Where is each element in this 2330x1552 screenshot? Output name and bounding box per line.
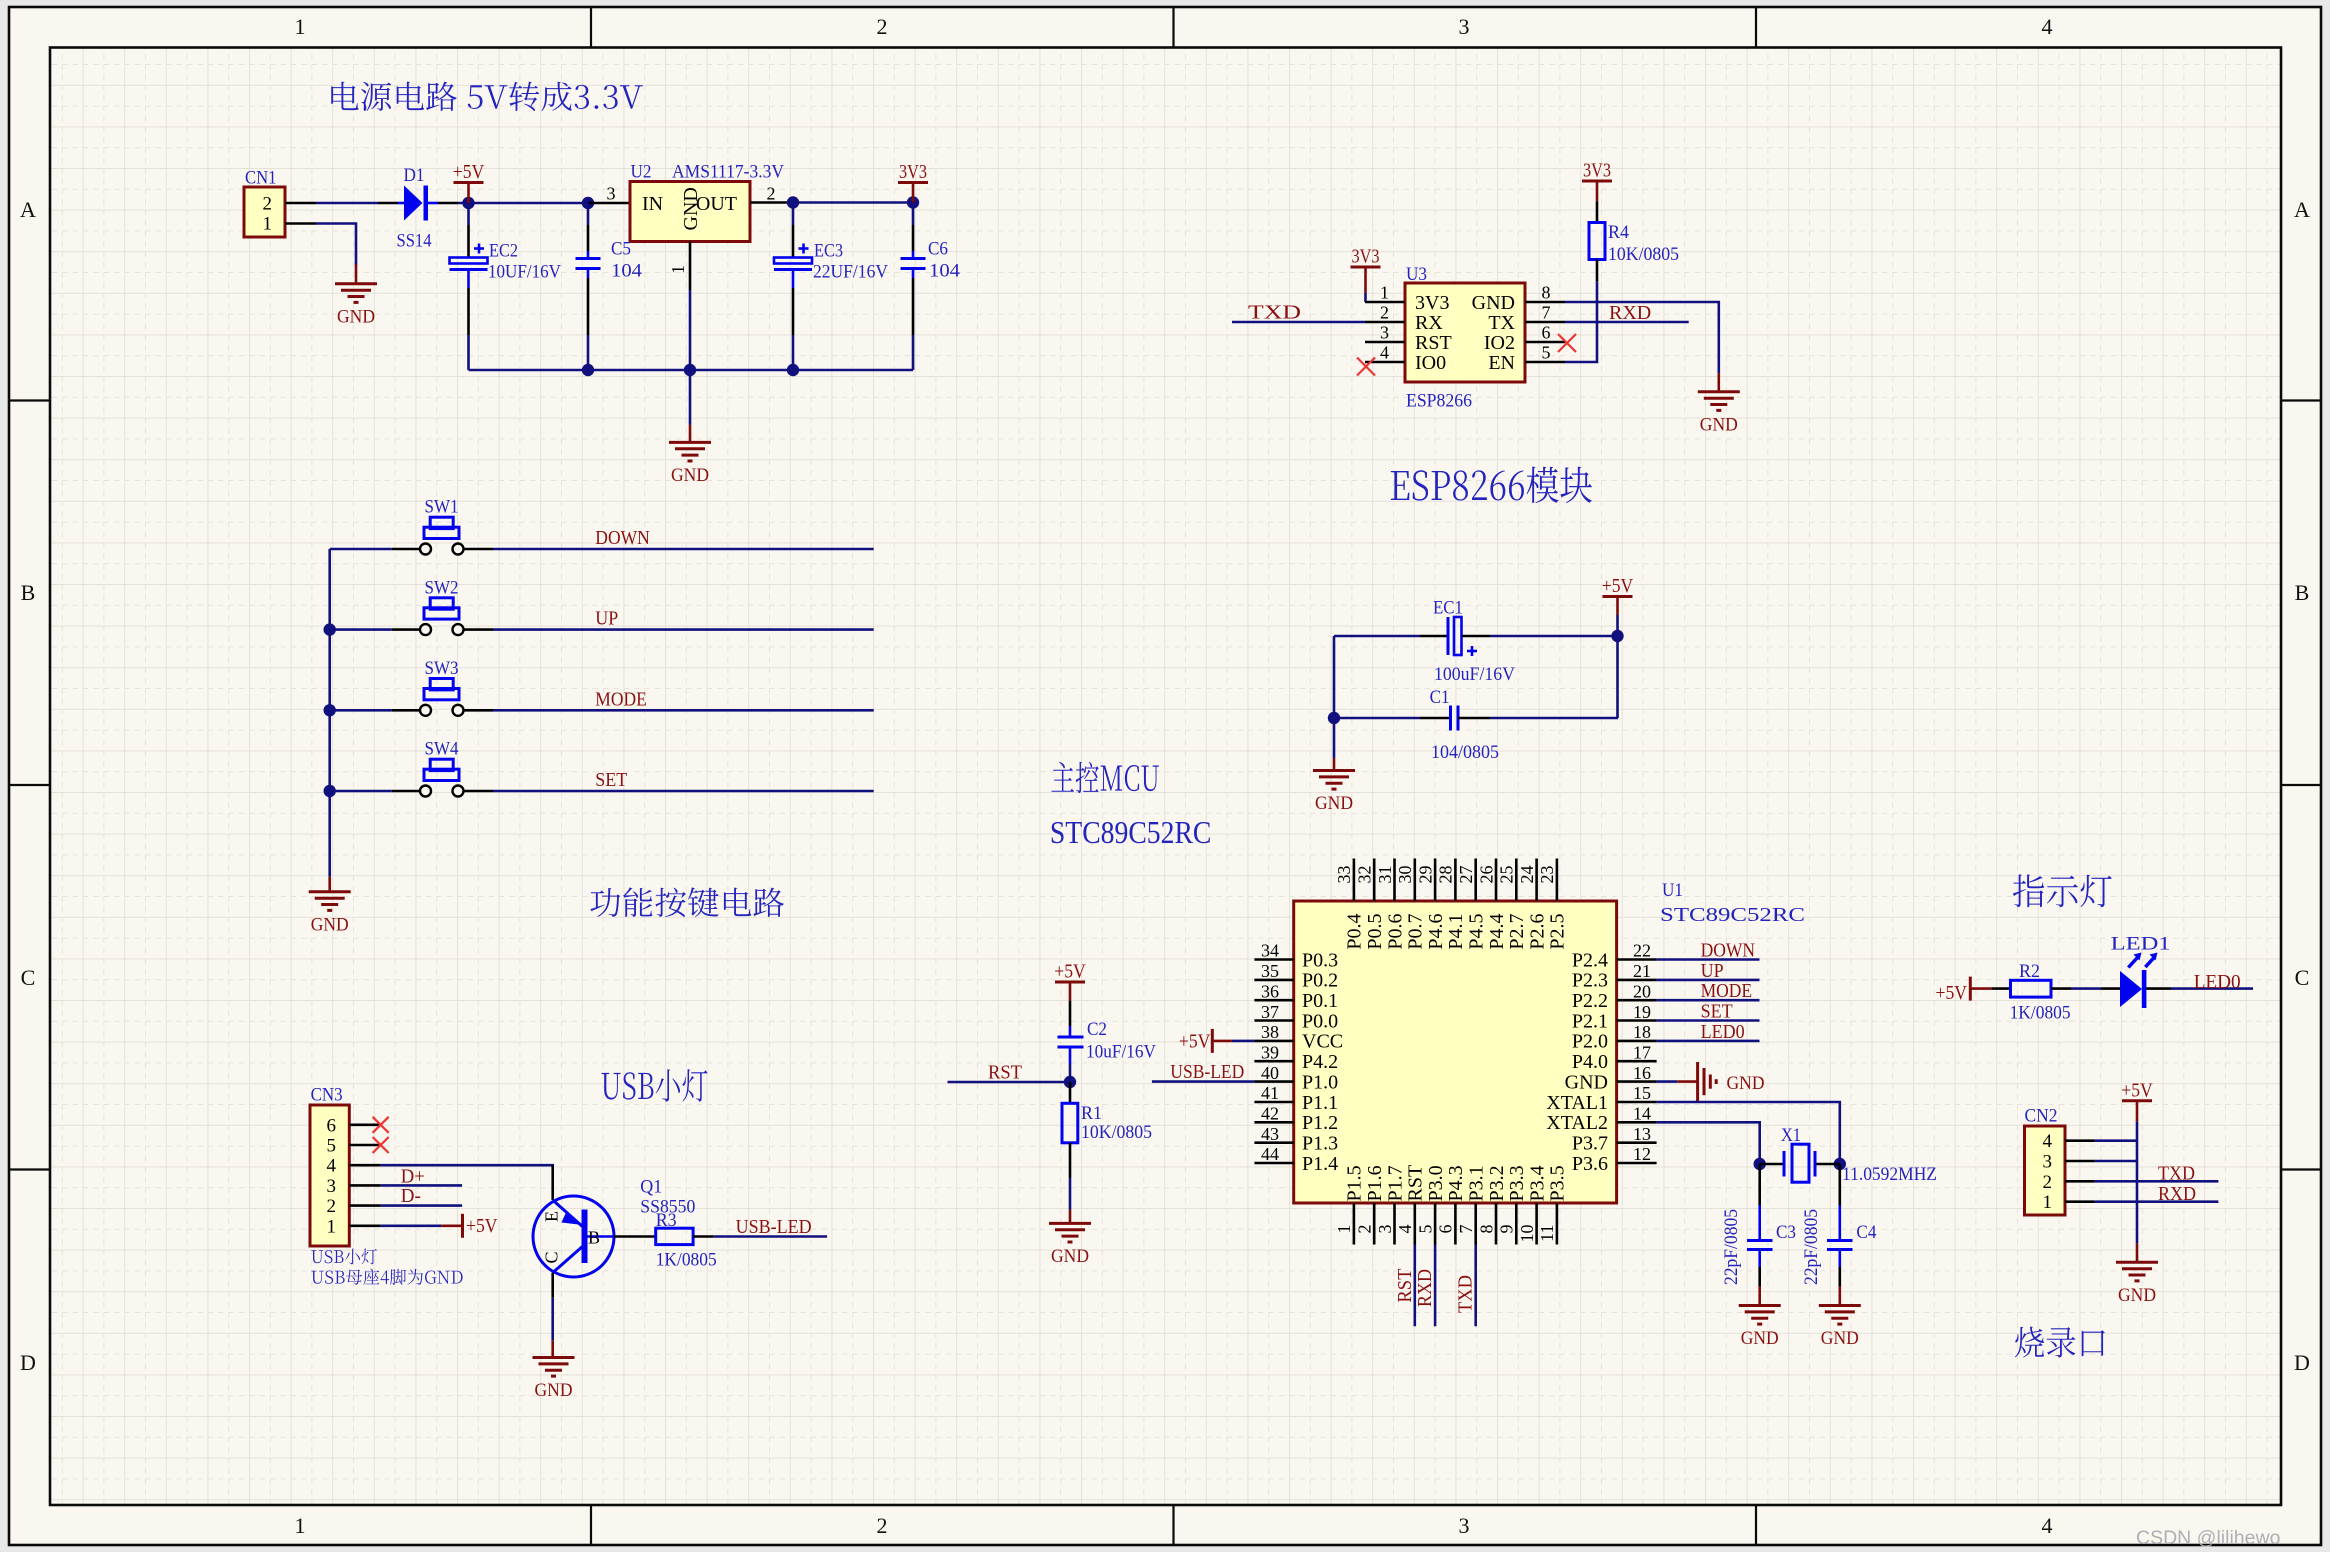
svg-text:1K/0805: 1K/0805: [2010, 1003, 2071, 1024]
svg-text:RX: RX: [1415, 312, 1443, 334]
svg-text:P0.4: P0.4: [1344, 914, 1366, 950]
wire / net DOWN: [493, 548, 874, 551]
svg-text:EC1: EC1: [1433, 598, 1463, 619]
ground (switches): [328, 877, 331, 892]
svg-text:SET: SET: [1701, 1001, 1733, 1023]
svg-text:10: 10: [1517, 1225, 1537, 1243]
ground (pin16, sideways): [1657, 1080, 1678, 1083]
wire R2 to LED1: [2071, 987, 2101, 990]
U1 pin 13 P3.7: [1617, 1141, 1657, 1144]
title: power circuit 电源电路 5V转成3.3V: [331, 82, 643, 112]
wire right leg: [1616, 636, 1619, 718]
junction at +5V node: [462, 197, 474, 209]
CN3 pin 5: [349, 1144, 380, 1147]
wire EC1 left leg: [1333, 636, 1336, 718]
svg-text:P1.6: P1.6: [1364, 1165, 1386, 1201]
svg-text:SW3: SW3: [425, 658, 459, 679]
svg-text:8: 8: [1476, 1225, 1496, 1234]
wire / net UP: [493, 628, 874, 631]
svg-text:D-: D-: [401, 1185, 421, 1207]
power 3V3 (U3): [1351, 266, 1381, 269]
svg-text:1: 1: [295, 1513, 306, 1538]
svg-text:CN1: CN1: [245, 168, 277, 189]
svg-text:AMS1117-3.3V: AMS1117-3.3V: [672, 162, 784, 183]
svg-text:5: 5: [1415, 1225, 1435, 1234]
svg-text:P1.2: P1.2: [1302, 1112, 1338, 1134]
title 指示灯: [2013, 874, 2112, 907]
svg-text:RST: RST: [1394, 1269, 1416, 1303]
CN2 pin 1: [2065, 1200, 2095, 1203]
svg-text:TXD: TXD: [1455, 1275, 1477, 1313]
U1 pin 39 P4.2: [1254, 1060, 1293, 1063]
svg-text:C2: C2: [1087, 1019, 1107, 1040]
svg-text:2: 2: [263, 194, 273, 215]
U1 pin 44 P1.4: [1254, 1162, 1293, 1165]
svg-text:P2.6: P2.6: [1526, 914, 1548, 950]
svg-text:23: 23: [1537, 866, 1557, 884]
U1 pin 42 P1.2: [1254, 1121, 1293, 1124]
svg-text:+5V: +5V: [2121, 1079, 2153, 1101]
U1 pin 20 P2.2: [1617, 999, 1657, 1002]
svg-text:C6: C6: [928, 239, 948, 260]
ground (Q1): [551, 1340, 554, 1357]
svg-text:3: 3: [1459, 1513, 1470, 1538]
svg-text:3: 3: [327, 1176, 337, 1197]
svg-text:P1.7: P1.7: [1384, 1165, 1406, 1201]
U1 pin 24 P2.6: [1535, 859, 1538, 902]
CN3 pin 2: [349, 1204, 380, 1207]
U1 pin 15 XTAL1: [1617, 1101, 1657, 1104]
svg-text:104/0805: 104/0805: [1431, 742, 1499, 763]
svg-text:+5V: +5V: [1936, 982, 1968, 1004]
svg-text:GND: GND: [1700, 414, 1738, 435]
crystal X1 11.0592MHZ: [1760, 1163, 1784, 1166]
svg-text:7: 7: [1542, 303, 1551, 323]
svg-text:MODE: MODE: [595, 688, 647, 710]
svg-text:P4.3: P4.3: [1445, 1165, 1467, 1201]
svg-text:14: 14: [1633, 1104, 1651, 1124]
U3 pin 7 TX: [1525, 321, 1565, 324]
CN1 pin 2: [285, 202, 316, 205]
svg-text:B: B: [2295, 580, 2310, 605]
svg-text:4: 4: [2042, 1513, 2053, 1538]
U1 pin 16 GND: [1617, 1080, 1657, 1083]
net RXD wire (pin5): [1434, 1245, 1437, 1327]
D1 cathode pin: [438, 202, 458, 205]
svg-text:3: 3: [1380, 323, 1389, 343]
svg-text:SET: SET: [595, 769, 627, 791]
net RST wire (pin4): [1414, 1245, 1417, 1327]
U1 pin 26 P4.4: [1495, 859, 1498, 902]
U1 pin 6 P4.3: [1454, 1203, 1457, 1245]
capacitor EC1 100uF/16V: [1334, 635, 1420, 638]
note USB母座4脚为GND: [311, 1269, 462, 1285]
U1 pin 27 P4.5: [1474, 859, 1477, 902]
svg-text:P4.6: P4.6: [1425, 914, 1447, 950]
svg-text:GND: GND: [1741, 1328, 1779, 1349]
svg-text:R2: R2: [2019, 961, 2040, 982]
junction C5 top: [582, 197, 594, 209]
svg-text:P0.0: P0.0: [1302, 1010, 1338, 1032]
U1 pin 8 P3.2: [1495, 1203, 1498, 1245]
svg-text:40: 40: [1261, 1063, 1279, 1083]
wire U2.2 to 3V3: [793, 201, 913, 204]
capacitor C4 22pF/0805: [1839, 1164, 1842, 1205]
svg-text:GND: GND: [1821, 1328, 1859, 1349]
ground (U2): [689, 370, 692, 425]
svg-text:P0.2: P0.2: [1302, 970, 1338, 992]
svg-text:P2.2: P2.2: [1572, 990, 1608, 1012]
svg-text:CSDN @lilihewo: CSDN @lilihewo: [2136, 1527, 2281, 1549]
no-connect X pin6: [373, 1117, 389, 1133]
title USB小灯: [602, 1069, 708, 1102]
svg-text:D: D: [2294, 1350, 2310, 1375]
U1 pin 29 P4.6: [1434, 859, 1437, 902]
switch common bus wire: [328, 549, 331, 877]
svg-text:GND: GND: [337, 306, 375, 327]
svg-text:C: C: [21, 965, 36, 990]
svg-text:22pF/0805: 22pF/0805: [1721, 1209, 1742, 1285]
U1 pin 31 P0.6: [1393, 859, 1396, 902]
svg-text:7: 7: [1456, 1225, 1476, 1234]
svg-text:39: 39: [1261, 1043, 1279, 1063]
U1 pin 17 P4.0: [1617, 1060, 1657, 1063]
U1 pin 28 P4.1: [1454, 859, 1457, 902]
svg-text:X1: X1: [1781, 1125, 1801, 1146]
svg-text:P0.6: P0.6: [1384, 914, 1406, 950]
svg-text:VCC: VCC: [1302, 1031, 1343, 1053]
svg-text:P0.1: P0.1: [1302, 990, 1338, 1012]
power +5V (CN3): [441, 1225, 461, 1228]
svg-text:10K/0805: 10K/0805: [1081, 1122, 1152, 1143]
svg-text:1: 1: [1380, 283, 1389, 303]
svg-text:38: 38: [1261, 1022, 1279, 1042]
power +5V (C2): [1055, 981, 1085, 984]
svg-text:6: 6: [327, 1115, 337, 1136]
svg-text:P4.2: P4.2: [1302, 1051, 1338, 1073]
svg-text:C: C: [2295, 965, 2310, 990]
U1 pin 2 P1.6: [1373, 1203, 1376, 1245]
CN3 pin 4: [349, 1164, 380, 1167]
svg-text:P3.1: P3.1: [1466, 1165, 1488, 1201]
svg-text:GND: GND: [1565, 1071, 1608, 1093]
U1 pin 41 P1.1: [1254, 1101, 1293, 1104]
svg-text:P3.3: P3.3: [1506, 1165, 1528, 1201]
svg-text:+5V: +5V: [466, 1215, 498, 1237]
svg-text:U3: U3: [1406, 264, 1427, 285]
svg-text:MODE: MODE: [1701, 980, 1753, 1002]
svg-text:4: 4: [2042, 14, 2053, 39]
U1 pin 37 P0.0: [1254, 1019, 1293, 1022]
U1 pin 30 P0.7: [1414, 859, 1417, 902]
svg-text:22pF/0805: 22pF/0805: [1801, 1209, 1822, 1285]
wire D1 to U2.3 node: [458, 202, 588, 205]
svg-text:1: 1: [263, 214, 273, 235]
U1 pin 21 P2.3: [1617, 979, 1657, 982]
svg-text:C1: C1: [1430, 687, 1450, 708]
net USB-LED wire: [714, 1235, 827, 1238]
svg-text:19: 19: [1633, 1002, 1651, 1022]
svg-text:P3.5: P3.5: [1547, 1165, 1569, 1201]
svg-text:2: 2: [2043, 1172, 2053, 1193]
svg-text:SW4: SW4: [425, 739, 459, 760]
title 主控MCU: [1051, 762, 1158, 793]
LED LED1: [2101, 987, 2120, 990]
svg-text:3V3: 3V3: [1415, 292, 1449, 314]
svg-text:27: 27: [1456, 866, 1476, 884]
svg-text:3V3: 3V3: [899, 161, 927, 183]
svg-text:GND: GND: [535, 1380, 573, 1401]
svg-text:USB-LED: USB-LED: [1170, 1061, 1244, 1083]
svg-text:+5V: +5V: [453, 161, 485, 183]
svg-text:XTAL1: XTAL1: [1546, 1092, 1608, 1114]
svg-text:P2.7: P2.7: [1506, 914, 1528, 950]
svg-text:DOWN: DOWN: [1701, 940, 1756, 962]
net D+ wire: [381, 1184, 462, 1187]
svg-text:P3.6: P3.6: [1572, 1153, 1608, 1175]
svg-text:GND: GND: [311, 914, 349, 935]
switch SW4: [330, 790, 392, 793]
U3 pin 6 IO2 (nc): [1525, 341, 1565, 344]
svg-text:GND: GND: [1727, 1073, 1765, 1094]
net RXD wire (CN2.1): [2095, 1200, 2219, 1203]
chip U3 ESP8266: [1405, 283, 1525, 382]
svg-text:P1.5: P1.5: [1344, 1165, 1366, 1201]
wire CN2.3 to GND: [2095, 1160, 2137, 1163]
svg-text:P3.0: P3.0: [1425, 1165, 1447, 1201]
wire CN3.1 to +5V: [381, 1225, 441, 1228]
svg-text:3: 3: [2043, 1152, 2053, 1173]
svg-text:P1.0: P1.0: [1302, 1071, 1338, 1093]
switch SW1: [330, 548, 392, 551]
svg-text:30: 30: [1395, 866, 1415, 884]
svg-text:10K/0805: 10K/0805: [1608, 244, 1679, 265]
U3 pin 5 EN: [1525, 361, 1565, 364]
svg-text:42: 42: [1261, 1104, 1279, 1124]
U1 pin 7 P3.1: [1474, 1203, 1477, 1245]
U3 pin 2 RX: [1365, 321, 1405, 324]
wire CN1.1 to GND: [316, 224, 356, 265]
svg-text:100uF/16V: 100uF/16V: [1434, 664, 1515, 685]
U2 pin 2: [750, 201, 793, 204]
svg-text:8: 8: [1542, 283, 1551, 303]
svg-text:P3.7: P3.7: [1572, 1133, 1608, 1155]
svg-text:TXD: TXD: [2158, 1162, 2195, 1184]
svg-text:+5V: +5V: [1602, 575, 1634, 597]
svg-text:36: 36: [1261, 981, 1279, 1001]
power +5V (CN2): [2122, 1099, 2152, 1102]
svg-text:35: 35: [1261, 961, 1279, 981]
title ESP8266模块: [1391, 467, 1592, 503]
svg-text:+5V: +5V: [1054, 961, 1086, 983]
svg-text:P4.1: P4.1: [1445, 914, 1467, 950]
svg-text:1: 1: [327, 1216, 337, 1237]
svg-text:1: 1: [668, 265, 688, 274]
svg-text:IO2: IO2: [1484, 332, 1515, 354]
net RST wire: [948, 1081, 1071, 1084]
CN3 pin 1: [349, 1225, 380, 1228]
svg-text:EN: EN: [1488, 352, 1515, 374]
svg-text:IO0: IO0: [1415, 352, 1446, 374]
svg-text:41: 41: [1261, 1083, 1279, 1103]
net TXD wire: [1232, 321, 1365, 324]
svg-text:TXD: TXD: [1248, 302, 1301, 324]
net MODE wire: [1657, 999, 1760, 1002]
svg-text:Q1: Q1: [640, 1177, 662, 1198]
svg-text:CN3: CN3: [311, 1085, 343, 1106]
svg-text:4: 4: [327, 1156, 337, 1177]
wire R4 to EN: [1565, 282, 1597, 362]
svg-text:9: 9: [1497, 1225, 1517, 1234]
U1 pin 5 P3.0: [1434, 1203, 1437, 1245]
svg-text:10uF/16V: 10uF/16V: [1086, 1042, 1156, 1063]
wire CN1.2 to D1: [316, 202, 378, 205]
net SET wire: [1657, 1019, 1760, 1022]
resistor R3 1K/0805: [656, 1228, 693, 1244]
svg-text:18: 18: [1633, 1022, 1651, 1042]
U1 pin 23 P2.5: [1556, 859, 1559, 902]
svg-text:UP: UP: [1701, 960, 1724, 982]
svg-text:P2.4: P2.4: [1572, 949, 1608, 971]
svg-text:DOWN: DOWN: [595, 527, 650, 549]
capacitor C2 10uF/16V: [1069, 1001, 1072, 1026]
svg-text:1: 1: [1334, 1225, 1354, 1234]
connector CN1: [244, 187, 285, 237]
svg-text:OUT: OUT: [696, 193, 737, 215]
Q1 collector to ground: [551, 1273, 554, 1298]
switch SW3: [330, 709, 392, 712]
CN2 pin 3: [2065, 1160, 2095, 1163]
svg-text:P1.1: P1.1: [1302, 1092, 1338, 1114]
svg-text:+5V: +5V: [1179, 1031, 1211, 1053]
wire / net SET: [493, 790, 874, 793]
svg-text:RST: RST: [1405, 1165, 1427, 1202]
CN1 pin 1: [285, 222, 316, 225]
resistor R1 10K/0805: [1069, 1082, 1072, 1103]
margin dividers: [590, 7, 592, 48]
svg-text:U2: U2: [631, 162, 652, 183]
U1 pin 1 P1.5: [1353, 1203, 1356, 1245]
svg-text:25: 25: [1497, 866, 1517, 884]
svg-text:D: D: [20, 1350, 36, 1375]
svg-text:4: 4: [1380, 343, 1389, 363]
switch SW2: [330, 628, 392, 631]
svg-text:GND: GND: [2118, 1285, 2156, 1306]
U1 pin 18 P2.0: [1617, 1040, 1657, 1043]
svg-text:LED0: LED0: [1701, 1021, 1745, 1043]
svg-text:A: A: [2294, 197, 2310, 222]
svg-text:29: 29: [1415, 866, 1435, 884]
svg-text:B: B: [588, 1228, 600, 1248]
connector CN2: [2025, 1126, 2066, 1215]
svg-text:2: 2: [1380, 303, 1389, 323]
svg-text:LED0: LED0: [2194, 971, 2241, 993]
svg-text:2: 2: [1355, 1225, 1375, 1234]
connector CN3: [310, 1105, 349, 1246]
ground (CN2): [2136, 1243, 2139, 1262]
svg-text:31: 31: [1375, 866, 1395, 884]
svg-text:USB-LED: USB-LED: [736, 1216, 812, 1238]
svg-text:RST: RST: [1415, 332, 1452, 354]
Q1 base pin: [614, 1235, 656, 1238]
svg-text:RXD: RXD: [1414, 1269, 1436, 1307]
svg-text:104: 104: [611, 261, 643, 282]
svg-text:2: 2: [767, 184, 776, 204]
wire XTAL1: [1657, 1102, 1840, 1164]
capacitor C5 104: [587, 203, 590, 225]
power 3V3 (R4): [1582, 180, 1612, 183]
svg-text:D1: D1: [404, 165, 425, 186]
svg-text:20: 20: [1633, 981, 1651, 1001]
svg-text:RXD: RXD: [1609, 302, 1651, 324]
svg-text:RXD: RXD: [2158, 1183, 2196, 1205]
U3 pin 1 3V3: [1365, 301, 1405, 304]
capacitor EC2 10UF/16V: [467, 203, 470, 225]
title 烧录口: [2015, 1327, 2105, 1358]
svg-text:43: 43: [1261, 1124, 1279, 1144]
net UP wire: [1657, 979, 1760, 982]
U1 pin 38 VCC: [1254, 1040, 1293, 1043]
svg-text:R4: R4: [1608, 222, 1629, 243]
svg-text:3V3: 3V3: [1352, 246, 1380, 268]
U1 pin 32 P0.5: [1373, 859, 1376, 902]
svg-text:26: 26: [1476, 866, 1496, 884]
U1 pin 43 P1.3: [1254, 1141, 1293, 1144]
svg-text:32: 32: [1355, 866, 1375, 884]
U3 pin 4 IO0 (nc): [1365, 361, 1405, 364]
svg-text:A: A: [20, 197, 36, 222]
svg-text:2: 2: [327, 1196, 337, 1217]
U1 pin 14 XTAL2: [1617, 1121, 1657, 1124]
svg-text:24: 24: [1517, 866, 1537, 884]
svg-text:37: 37: [1261, 1002, 1279, 1022]
U2 pin 1 (GND): [689, 242, 692, 291]
svg-text:33: 33: [1334, 866, 1354, 884]
svg-text:6: 6: [1436, 1225, 1456, 1234]
net D- wire: [381, 1204, 462, 1207]
svg-text:11: 11: [1537, 1225, 1557, 1242]
svg-text:2: 2: [877, 1513, 888, 1538]
svg-text:C5: C5: [611, 239, 631, 260]
U3 pin 8 GND: [1525, 301, 1565, 304]
U1 pin 33 P0.4: [1353, 859, 1356, 902]
svg-text:B: B: [21, 580, 36, 605]
svg-text:CN2: CN2: [2025, 1106, 2058, 1127]
svg-text:15: 15: [1633, 1083, 1651, 1103]
wire CN2.4 to +5V: [2095, 1139, 2137, 1142]
svg-text:3: 3: [1375, 1225, 1395, 1234]
CN3 pin 3: [349, 1184, 380, 1187]
svg-text:10UF/16V: 10UF/16V: [488, 262, 561, 283]
U1 pin 10 P3.4: [1535, 1203, 1538, 1245]
svg-text:EC2: EC2: [489, 241, 518, 262]
svg-text:P4.0: P4.0: [1572, 1051, 1608, 1073]
U1 pin 34 P0.3: [1254, 958, 1293, 961]
wire CN3.4 to Q1 emitter: [381, 1165, 553, 1167]
svg-text:5: 5: [1542, 343, 1551, 363]
U2 pin 3: [588, 202, 630, 205]
svg-text:SW1: SW1: [425, 497, 459, 518]
svg-text:P2.3: P2.3: [1572, 970, 1608, 992]
power 3V3 (output): [912, 183, 915, 203]
ground (CN1): [355, 264, 358, 283]
svg-text:44: 44: [1261, 1144, 1279, 1164]
wire / net MODE: [493, 709, 874, 712]
resistor R4 10K/0805: [1596, 201, 1599, 222]
svg-text:P3.4: P3.4: [1526, 1165, 1548, 1201]
svg-text:21: 21: [1633, 961, 1651, 981]
svg-text:3: 3: [607, 184, 616, 204]
